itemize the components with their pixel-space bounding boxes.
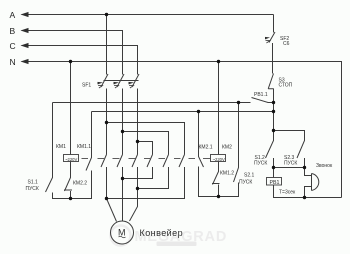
svg-text:М: М — [118, 228, 126, 238]
svg-text:ПУСК: ПУСК — [254, 161, 267, 167]
svg-text:КМ1: КМ1 — [56, 144, 66, 150]
svg-text:A: A — [10, 10, 16, 20]
svg-text:КМ2.2: КМ2.2 — [73, 181, 87, 187]
svg-text:N: N — [10, 57, 16, 67]
svg-text:ПУСК: ПУСК — [26, 186, 39, 192]
svg-text:КМ1.1: КМ1.1 — [77, 144, 91, 150]
svg-text:КМ2: КМ2 — [222, 145, 232, 151]
svg-text:SF1: SF1 — [82, 83, 91, 89]
svg-text:ПУСК: ПУСК — [239, 179, 252, 185]
svg-text:B: B — [10, 26, 16, 36]
svg-text:РВ1: РВ1 — [269, 180, 279, 186]
svg-text:Конвейер: Конвейер — [140, 228, 184, 238]
svg-text:S2.1: S2.1 — [244, 173, 255, 179]
svg-text:КМ2.1: КМ2.1 — [199, 145, 213, 151]
svg-text:Звонок: Звонок — [316, 163, 333, 169]
svg-text:РВ1.1: РВ1.1 — [254, 92, 268, 98]
svg-text:ПУСК: ПУСК — [284, 161, 297, 167]
svg-text:Т=3сек: Т=3сек — [279, 190, 296, 196]
svg-text:С6: С6 — [283, 41, 290, 47]
svg-text:СТОП: СТОП — [279, 83, 293, 89]
svg-text:КМ1.2: КМ1.2 — [220, 171, 234, 177]
svg-text:S1.1: S1.1 — [28, 180, 39, 186]
svg-text:~220V: ~220V — [65, 157, 77, 162]
svg-text:C: C — [10, 41, 16, 51]
svg-text:~220V: ~220V — [213, 157, 225, 162]
